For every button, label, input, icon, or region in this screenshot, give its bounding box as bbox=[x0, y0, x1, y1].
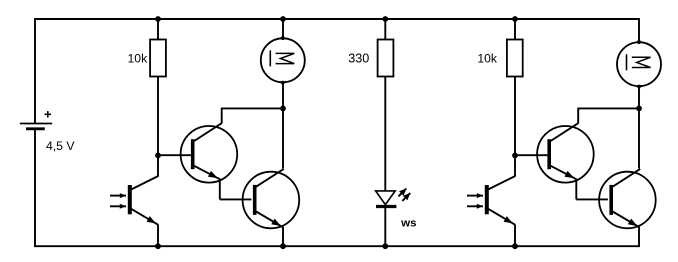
wire: R1 top lead from rail bbox=[157, 19, 159, 40]
wire: Q2 emitter down to bottom rail bbox=[282, 227, 284, 246]
wire: R2 top lead from rail bbox=[384, 19, 386, 40]
resistor 10k value label bbox=[477, 52, 498, 66]
wire: base node to Q1 base bbox=[158, 154, 191, 156]
phototransistor T1 light arrow 1 bbox=[110, 193, 126, 198]
wire: motor M1 bottom lead bbox=[282, 82, 284, 108]
transistor Q3 base bar bbox=[547, 139, 551, 169]
node: bottom rail / LED cathode bbox=[382, 243, 388, 249]
LED D1 cathode bar bbox=[376, 205, 396, 208]
wire: motor M2 top lead bbox=[638, 18, 640, 44]
node: R1 / Q1 base / T1 collector bbox=[155, 153, 161, 159]
motor M2 terminal dots bbox=[637, 40, 641, 88]
LED D1 emission arrow 2 bbox=[402, 193, 410, 201]
wire: Q1 emitter over to Q2 base bbox=[220, 198, 252, 200]
transistor Q4 collector lead bbox=[613, 169, 641, 187]
transistor Q3 circle bbox=[537, 126, 594, 183]
transistor Q2 base bar bbox=[253, 185, 257, 215]
phototransistor T2 base bar bbox=[485, 185, 489, 214]
transistor Q1 circle bbox=[181, 126, 238, 183]
wire: base node to Q3 base bbox=[515, 154, 547, 156]
resistor 330 body bbox=[378, 40, 394, 77]
wire: R2 bottom lead down to LED anode bbox=[384, 77, 386, 192]
transistor Q3 emitter lead with arrow bbox=[551, 166, 577, 179]
node: bottom rail / T2 emitter bbox=[512, 243, 518, 249]
motor M2 M glyph bbox=[627, 54, 651, 70]
node: top rail / M1 bbox=[280, 16, 286, 22]
svg-text:10k: 10k bbox=[477, 52, 498, 66]
motor M1 terminal dots bbox=[281, 36, 285, 84]
node: bottom rail / T1 emitter bbox=[155, 243, 161, 249]
LED D1 emission arrow 1 bbox=[398, 189, 406, 197]
transistor Q4 emitter lead with arrow bbox=[613, 212, 640, 228]
transistor Q4 circle bbox=[599, 172, 656, 229]
svg-text:4,5 V: 4,5 V bbox=[46, 139, 75, 153]
transistor Q1 collector lead bbox=[194, 123, 222, 141]
svg-text:330: 330 bbox=[348, 51, 369, 65]
wire: Q3 collector up and over to motor node bbox=[577, 108, 639, 123]
node: M2 / Q3+Q4 collectors bbox=[636, 106, 642, 112]
wire: Q4 emitter down to bottom rail corner bbox=[638, 227, 640, 247]
node: top rail / R1 bbox=[155, 16, 161, 22]
phototransistor T2 collector lead bbox=[488, 176, 515, 189]
wire: Q1 collector up and over to motor node bbox=[221, 108, 283, 123]
transistor Q1 emitter lead with arrow bbox=[194, 166, 220, 179]
phototransistor T1 collector lead bbox=[131, 176, 158, 189]
resistor 10k value label bbox=[128, 52, 149, 66]
resistor 10k body bbox=[150, 40, 166, 77]
phototransistor T2 emitter lead with arrow bbox=[488, 209, 515, 225]
LED D1 triangle (anode) bbox=[376, 191, 396, 205]
transistor Q2 emitter lead with arrow bbox=[256, 212, 283, 228]
resistor 330 value label bbox=[348, 51, 369, 65]
battery B1 positive plate (long) bbox=[20, 123, 52, 125]
node: M1 / Q1+Q2 collectors bbox=[280, 106, 286, 112]
motor M1 circle bbox=[261, 38, 305, 82]
wire: R3 top lead from rail bbox=[514, 19, 516, 40]
transistor Q3 collector lead bbox=[551, 123, 579, 141]
wire: R3 bottom lead down to base node bbox=[514, 77, 516, 156]
wire: Q2 collector up to motor node bbox=[282, 108, 284, 168]
battery B1 plus sign bbox=[45, 111, 51, 117]
resistor 10k body bbox=[507, 40, 523, 77]
wire: top supply rail bbox=[35, 18, 639, 20]
wire: R1 bottom lead down to base node bbox=[157, 77, 159, 156]
svg-text:10k: 10k bbox=[128, 52, 149, 66]
wire: motor M2 bottom lead bbox=[638, 85, 640, 108]
node: bottom rail / Q2 emitter bbox=[280, 243, 286, 249]
wire: Q3 emitter down then over bbox=[575, 179, 577, 200]
wire: battery bottom lead bbox=[34, 129, 36, 247]
phototransistor T1 light arrow 2 bbox=[110, 204, 126, 209]
wire: Q3 emitter over to Q4 base bbox=[576, 198, 608, 200]
battery B1 negative plate (short thick) bbox=[26, 127, 45, 130]
transistor Q4 base bar bbox=[609, 185, 613, 215]
battery B1 value label 4,5 V bbox=[46, 139, 75, 153]
phototransistor T1 base bar bbox=[128, 185, 132, 214]
LED D1 colour label ws bbox=[400, 218, 416, 230]
node: top rail / R3 bbox=[512, 16, 518, 22]
wire: Q4 collector up to motor node bbox=[638, 108, 640, 168]
wire: motor M1 top lead bbox=[282, 19, 284, 40]
wire: node down to phototransistor T2 collector bbox=[514, 155, 516, 176]
wire: battery top lead bbox=[34, 18, 36, 123]
wire: T1 emitter down to bottom rail bbox=[157, 224, 159, 246]
transistor Q2 collector lead bbox=[256, 169, 284, 187]
motor M2 circle bbox=[617, 42, 661, 86]
node: R3 / Q3 base / T2 collector bbox=[512, 153, 518, 159]
transistor Q1 base bar bbox=[191, 139, 195, 169]
transistor Q2 circle bbox=[243, 172, 300, 229]
phototransistor T2 light arrow 1 bbox=[467, 193, 483, 198]
svg-text:ws: ws bbox=[400, 218, 416, 230]
motor M1 M glyph bbox=[270, 50, 294, 66]
node: top rail / R2 bbox=[382, 16, 388, 22]
phototransistor T1 emitter lead with arrow bbox=[131, 209, 158, 225]
wire: Q1 emitter down then over bbox=[219, 179, 221, 200]
wire: node down to phototransistor T1 collector bbox=[157, 155, 159, 176]
wire: bottom return rail bbox=[35, 245, 639, 247]
phototransistor T2 light arrow 2 bbox=[467, 204, 483, 209]
wire: LED cathode down to bottom rail bbox=[384, 207, 386, 247]
wire: T2 emitter down to bottom rail bbox=[514, 224, 516, 246]
